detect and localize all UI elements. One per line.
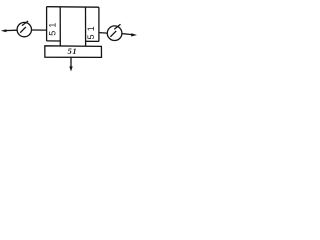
- svg-text:51: 51: [86, 23, 96, 39]
- arrowhead: drain (points down): [69, 66, 72, 71]
- transducer B2: circle: [107, 26, 122, 41]
- wire: left outlet line: [5, 29, 18, 31]
- svg-text:51: 51: [67, 46, 77, 56]
- wire: B1 to valve block S1: [32, 29, 47, 31]
- wire: tank drain down: [70, 57, 72, 67]
- wire: B2 outlet: [122, 34, 132, 35]
- valve block S1: top edge: [47, 6, 99, 9]
- tank 51: rectangle: [45, 46, 102, 58]
- B2 slash upper: [114, 24, 120, 29]
- valve block S1: left edge: [46, 7, 48, 41]
- wire: block to B2: [99, 32, 107, 35]
- svg-text:51: 51: [47, 19, 57, 35]
- B1 slash upper: [22, 21, 28, 26]
- valve block S1: mid-left vertical (down to tank): [59, 7, 61, 46]
- valve block S1: right edge: [98, 7, 100, 41]
- arrowhead: right outlet (points right): [131, 33, 137, 36]
- valve block S1: bottom-right segment: [86, 40, 99, 42]
- arrowhead: left outlet (points left): [1, 29, 7, 32]
- valve block S1: bottom-left segment: [47, 40, 61, 42]
- B2 slash lower: [110, 31, 116, 37]
- B1 slash lower: [20, 27, 26, 33]
- transducer B1: circle: [17, 22, 31, 36]
- valve block S1: mid-right vertical (down to tank): [85, 7, 87, 46]
